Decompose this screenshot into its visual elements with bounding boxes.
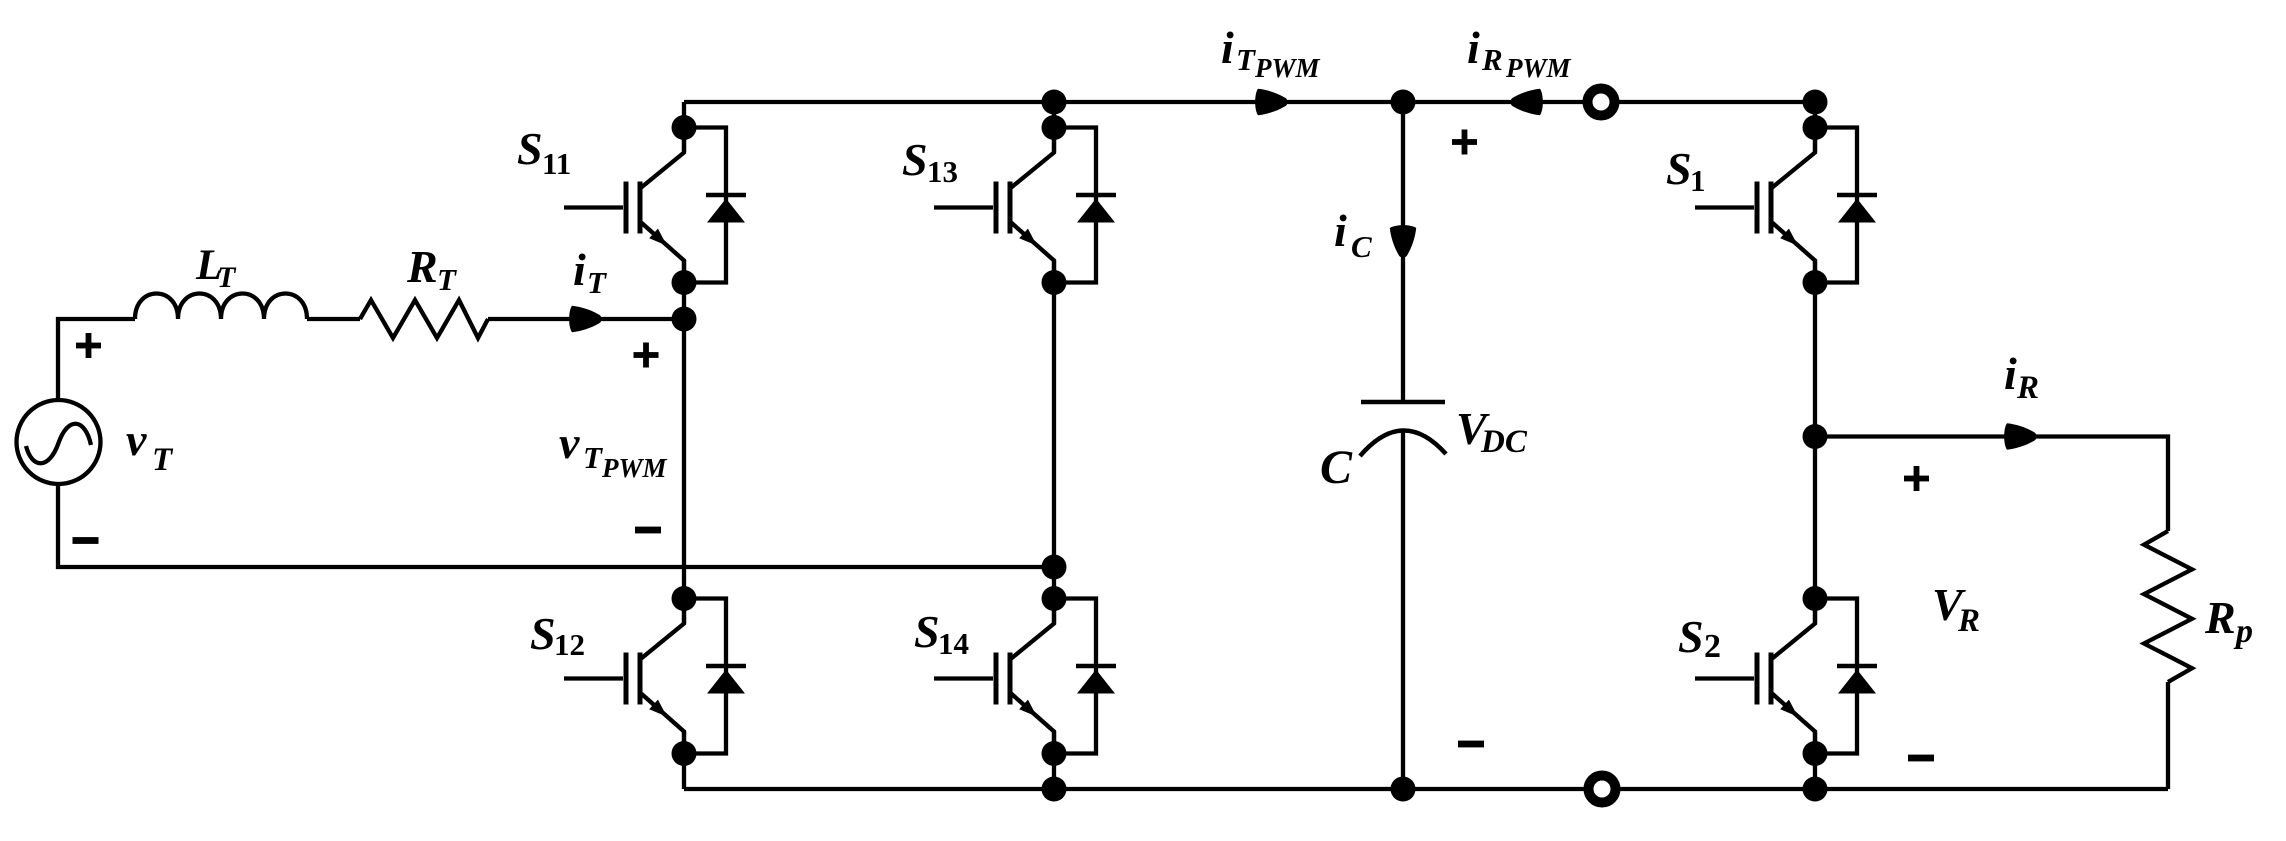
wire source bottom to mid rail	[58, 484, 1054, 567]
leg 3 lower wire	[1813, 731, 1817, 789]
capacitor C curved plate	[1360, 430, 1446, 456]
bottom DC bus wire	[684, 787, 2168, 791]
load bottom wire	[2166, 682, 2170, 789]
diode of S11	[684, 128, 746, 283]
sine wave inside source	[26, 424, 91, 464]
resistor Rp	[2144, 531, 2192, 682]
node top bus leg 3	[1803, 90, 1828, 115]
leg 1 lower wire	[682, 731, 686, 789]
current arrow iTPWM	[1255, 89, 1287, 115]
node top bus capacitor	[1391, 90, 1416, 115]
current arrow iT	[569, 306, 601, 332]
leg 3 upper wire	[1813, 102, 1817, 152]
diode of S2	[1815, 599, 1877, 754]
node bottom bus leg 2	[1042, 777, 1067, 802]
current arrow iR	[2004, 423, 2036, 449]
node S13 emitter	[1042, 270, 1067, 295]
leg 1 middle wire	[682, 260, 686, 624]
transistor S2	[1695, 601, 1815, 754]
leg 3 middle wire	[1813, 260, 1817, 624]
plus sign of vTPWM	[634, 343, 659, 368]
wire resistor to bridge leg 1	[488, 317, 684, 321]
capacitor C top plate	[1361, 400, 1445, 405]
terminal ring bottom	[1589, 776, 1616, 803]
minus sign of VDC	[1458, 741, 1484, 748]
minus sign of VR	[1908, 755, 1934, 762]
current arrow iRPWM	[1510, 89, 1542, 115]
node S12 collector	[672, 586, 697, 611]
minus sign of vTPWM	[635, 527, 661, 534]
node bottom bus leg 3	[1803, 777, 1828, 802]
node S1 emitter	[1803, 270, 1828, 295]
node iT junction	[672, 307, 697, 332]
plus sign of VDC	[1452, 130, 1477, 155]
svg-text:C: C	[1320, 441, 1353, 494]
capacitor bottom wire	[1401, 430, 1405, 789]
diode of S13	[1054, 128, 1116, 283]
node mid rail junction	[1042, 555, 1067, 580]
transistor S13	[934, 130, 1054, 283]
output wire to load	[1815, 437, 2168, 532]
transistor S1	[1695, 130, 1815, 283]
inductor LT	[135, 294, 307, 320]
transistor S11	[564, 130, 684, 283]
node bottom bus capacitor	[1391, 777, 1416, 802]
diode of S14	[1054, 599, 1116, 754]
node S14 emitter	[1042, 741, 1067, 766]
node output junction	[1803, 424, 1828, 449]
resistor RT	[360, 300, 488, 338]
transistor S12	[564, 601, 684, 754]
wire inductor to resistor	[307, 317, 360, 321]
leg 2 middle wire	[1052, 260, 1056, 624]
transistor S14	[934, 601, 1054, 754]
leg 1 upper wire	[682, 102, 686, 152]
minus sign of source	[73, 537, 99, 544]
node S11 collector	[672, 115, 697, 140]
node S11 emitter	[672, 270, 697, 295]
current arrow iC	[1390, 225, 1416, 257]
leg 2 lower wire	[1052, 731, 1056, 789]
node S2 collector	[1803, 586, 1828, 611]
leg 2 upper wire	[1052, 102, 1056, 152]
AC source vT circle	[17, 400, 101, 484]
node S12 emitter	[672, 741, 697, 766]
capacitor top wire	[1401, 102, 1405, 400]
node S1 collector	[1803, 115, 1828, 140]
plus sign of source	[76, 333, 101, 358]
terminal ring top	[1588, 89, 1615, 116]
node S2 emitter	[1803, 741, 1828, 766]
diode of S1	[1815, 128, 1877, 283]
node S13 collector	[1042, 115, 1067, 140]
node top bus leg 2	[1042, 90, 1067, 115]
top DC bus wire	[684, 100, 1815, 104]
node S14 collector	[1042, 586, 1067, 611]
wire source top to inductor corner	[58, 319, 135, 400]
diode of S12	[684, 599, 746, 754]
plus sign of VR	[1904, 466, 1929, 491]
